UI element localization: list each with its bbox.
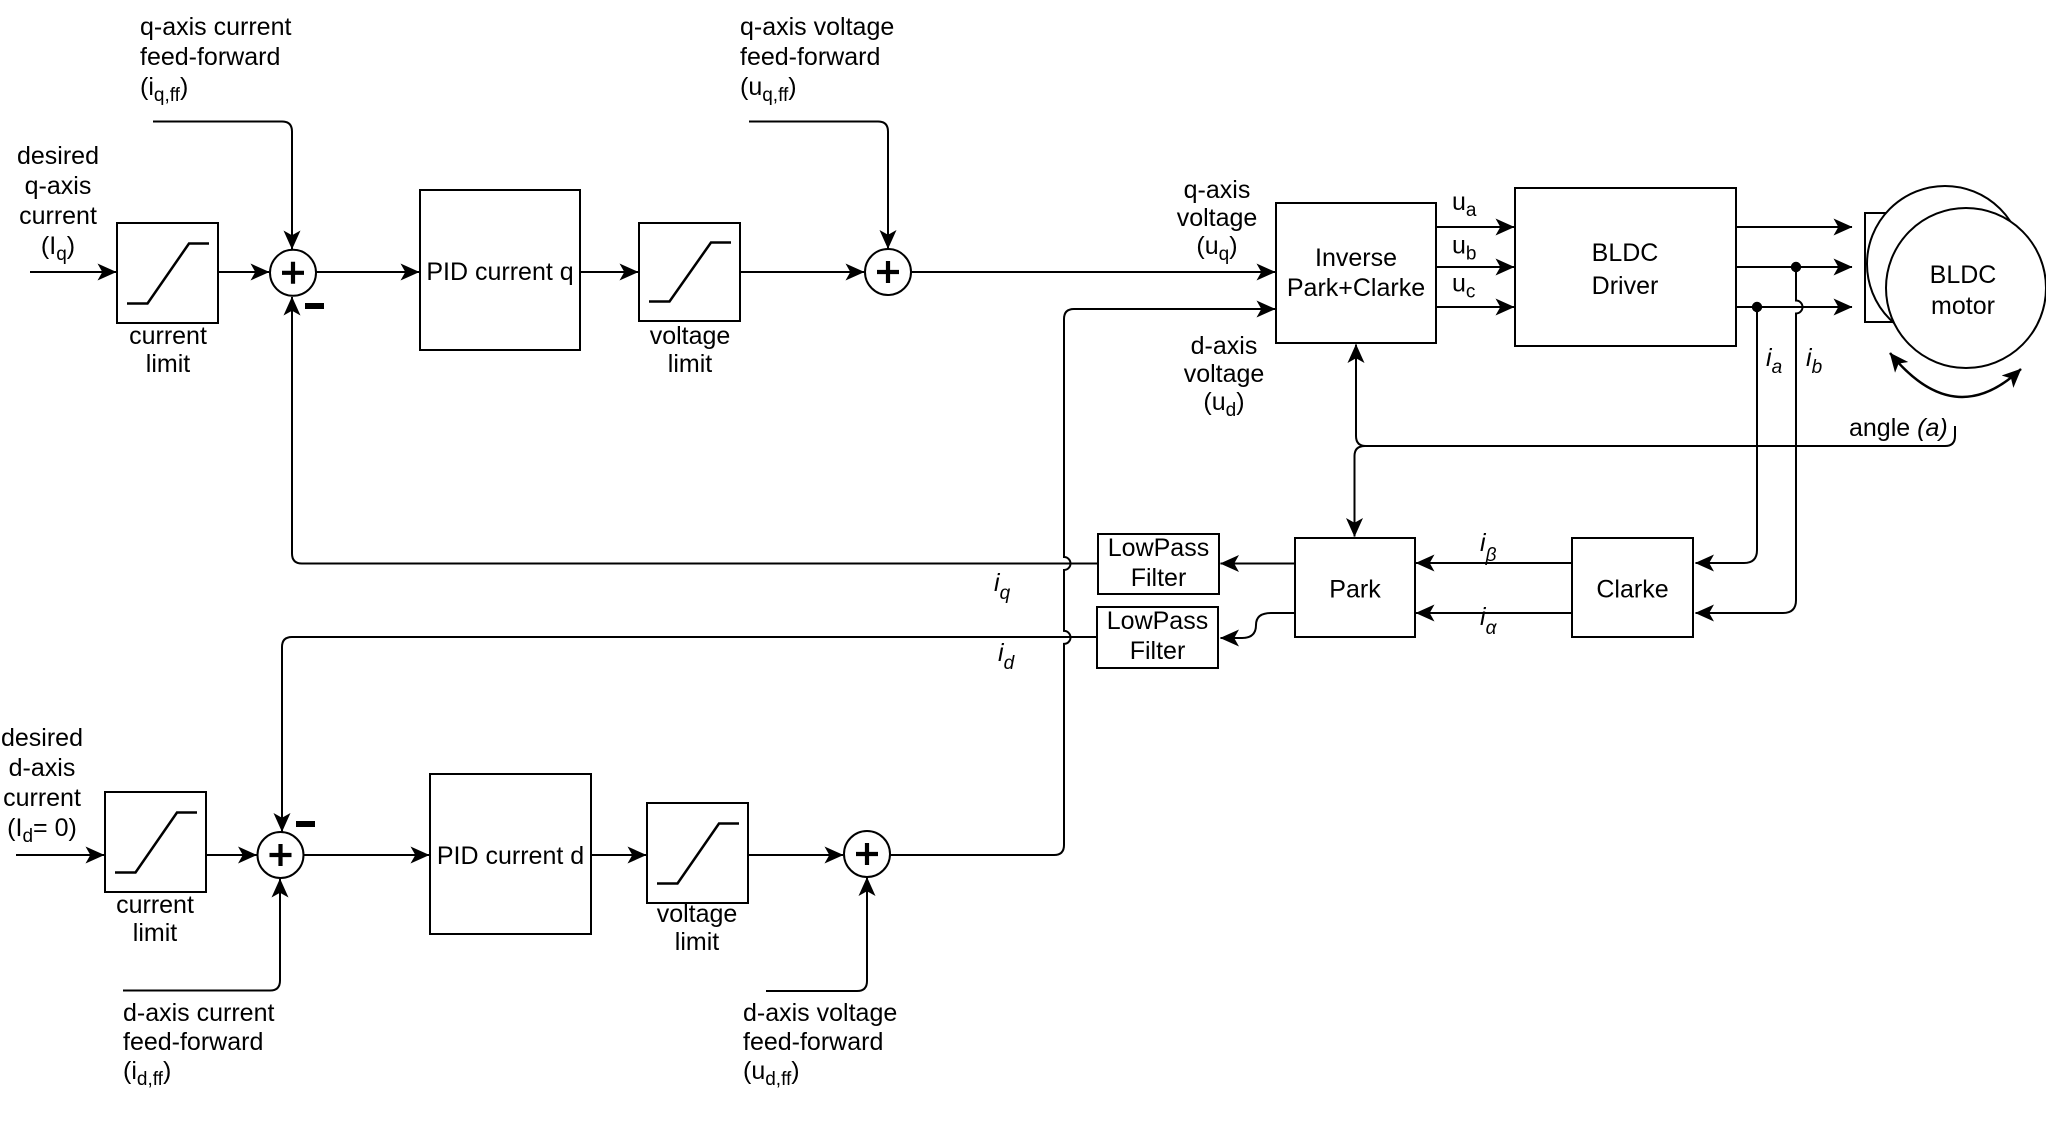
label: q-axis voltage feed-forward (uq,ff)	[740, 13, 894, 106]
label: q-axis current feed-forward (iq,ff)	[140, 13, 291, 106]
svg-text:q-axis: q-axis	[1184, 176, 1251, 204]
svg-text:q-axis: q-axis	[25, 172, 92, 200]
svg-text:limit: limit	[146, 350, 190, 378]
wire sum2q to Inverse Park+Clarke (uq)	[911, 271, 1275, 273]
wire q input	[30, 271, 116, 273]
svg-text:voltage: voltage	[1177, 204, 1258, 232]
svg-text:d-axis current: d-axis current	[123, 999, 274, 1027]
summing junction sum1d	[258, 824, 316, 878]
block PID current d	[430, 774, 591, 934]
svg-text:motor: motor	[1931, 292, 1995, 320]
wire uc	[1436, 270, 1514, 308]
block PID current q	[420, 190, 580, 350]
block current limit d	[105, 792, 206, 947]
wire voltage limit q to sum2q	[740, 271, 864, 273]
svg-text:d-axis voltage: d-axis voltage	[743, 999, 897, 1027]
block LowPass Filter 2	[1097, 607, 1218, 668]
block voltage limit d	[647, 803, 748, 956]
wire PID d to voltage limit d	[591, 854, 646, 856]
wire Clarke to Park (i alpha)	[1416, 603, 1572, 639]
wire driver phase c to motor	[1736, 306, 1852, 308]
block Inverse Park+Clarke	[1276, 203, 1436, 343]
svg-text:Park+Clarke: Park+Clarke	[1287, 274, 1425, 302]
BLDC motor: stator rect	[1865, 213, 1905, 322]
wire Park to LowPass Filter 1	[1221, 563, 1296, 565]
svg-text:limit: limit	[668, 350, 712, 378]
svg-text:d-axis: d-axis	[1191, 332, 1258, 360]
label: desired q-axis current (Iq)	[17, 142, 99, 265]
svg-text:Filter: Filter	[1131, 564, 1187, 592]
svg-text:Clarke: Clarke	[1596, 576, 1668, 604]
summing junction sum2d	[844, 831, 890, 877]
svg-text:BLDC: BLDC	[1592, 239, 1659, 267]
block BLDC Driver	[1515, 188, 1736, 346]
svg-text:BLDC: BLDC	[1930, 261, 1997, 289]
wire PID q to voltage limit q	[580, 271, 638, 273]
svg-text:LowPass: LowPass	[1108, 534, 1209, 562]
block current limit q	[117, 223, 218, 378]
label: q-axis voltage (uq)	[1177, 176, 1258, 265]
wire ub	[1436, 232, 1514, 268]
label: d-axis voltage (ud)	[1184, 332, 1265, 421]
svg-text:feed-forward: feed-forward	[140, 43, 280, 71]
wire driver phase a to motor	[1736, 226, 1852, 228]
BLDC motor: back circle	[1867, 186, 2023, 342]
svg-text:limit: limit	[133, 919, 177, 947]
wire current limit q to sum1q	[218, 271, 269, 273]
svg-text:q-axis current: q-axis current	[140, 13, 291, 41]
wire Park to LowPass Filter 2 (s-curve)	[1221, 613, 1296, 638]
svg-text:feed-forward: feed-forward	[123, 1028, 263, 1056]
wire feed-forward ud,ff into sum2d bottom	[766, 878, 867, 992]
svg-text:current: current	[3, 784, 81, 812]
wire driver phase b to motor	[1736, 266, 1852, 268]
svg-text:current: current	[129, 322, 207, 350]
wire feed-forward uq,ff into sum2q top	[749, 122, 888, 249]
svg-text:Driver: Driver	[1592, 272, 1659, 300]
svg-text:angle (a): angle (a)	[1849, 414, 1948, 442]
wire ua	[1436, 188, 1514, 227]
block Clarke	[1572, 538, 1693, 637]
svg-text:q-axis voltage: q-axis voltage	[740, 13, 894, 41]
svg-text:voltage: voltage	[650, 322, 731, 350]
summing junction sum2q	[865, 249, 911, 295]
wire sum1d to PID current d	[304, 854, 430, 856]
svg-text:LowPass: LowPass	[1107, 607, 1208, 635]
wire d-axis voltage: sum2d up to Inverse Park+Clarke (ud), hops over iq/id feedback	[890, 309, 1275, 855]
label: d-axis current feed-forward (id,ff)	[123, 999, 274, 1090]
wire feed-forward iq,ff into sum1q top	[153, 122, 292, 250]
wire angle to Inverse Park+Clarke	[1356, 345, 1955, 447]
svg-text:Filter: Filter	[1130, 637, 1186, 665]
svg-text:current: current	[116, 891, 194, 919]
block voltage limit q	[639, 223, 740, 378]
rotation arrow under motor	[1890, 353, 2021, 397]
svg-text:Inverse: Inverse	[1315, 244, 1397, 272]
svg-text:desired: desired	[1, 724, 83, 752]
wire feedback id: LPF2 to sum1d	[282, 637, 1097, 832]
wire d input	[16, 854, 104, 856]
junction dot on phase c	[1752, 302, 1762, 312]
BLDC motor: front circle	[1886, 208, 2046, 368]
svg-text:current: current	[19, 202, 97, 230]
wire voltage limit d to sum2d	[748, 854, 843, 856]
svg-text:Park: Park	[1329, 576, 1381, 604]
block LowPass Filter 1	[1098, 534, 1219, 594]
wire Clarke to Park (i beta)	[1416, 529, 1572, 566]
svg-text:feed-forward: feed-forward	[740, 43, 880, 71]
svg-text:PID current d: PID current d	[437, 842, 584, 870]
svg-text:desired: desired	[17, 142, 99, 170]
svg-text:voltage: voltage	[657, 900, 738, 928]
label: desired d-axis current (Id = 0)	[1, 724, 83, 847]
block Park	[1295, 538, 1415, 637]
svg-text:limit: limit	[675, 928, 719, 956]
svg-text:feed-forward: feed-forward	[743, 1028, 883, 1056]
wire feedback iq: LPF1 to sum1q	[292, 297, 1098, 564]
wire sum1q to PID current q	[316, 271, 419, 273]
summing junction sum1q	[270, 250, 324, 306]
wire current limit d to sum1d	[206, 854, 257, 856]
svg-text:d-axis: d-axis	[9, 754, 76, 782]
label: d-axis voltage feed-forward (ud,ff)	[743, 999, 897, 1090]
svg-text:voltage: voltage	[1184, 360, 1265, 388]
wire feed-forward id,ff into sum1d bottom	[123, 879, 280, 991]
svg-text:PID current q: PID current q	[426, 258, 573, 286]
wire ia sense down to Clarke	[1696, 307, 1758, 563]
wire angle branch to Park	[1355, 446, 1366, 537]
wire ib sense down to Clarke (hop over phase c)	[1696, 267, 1803, 613]
junction dot on phase b	[1791, 262, 1801, 272]
